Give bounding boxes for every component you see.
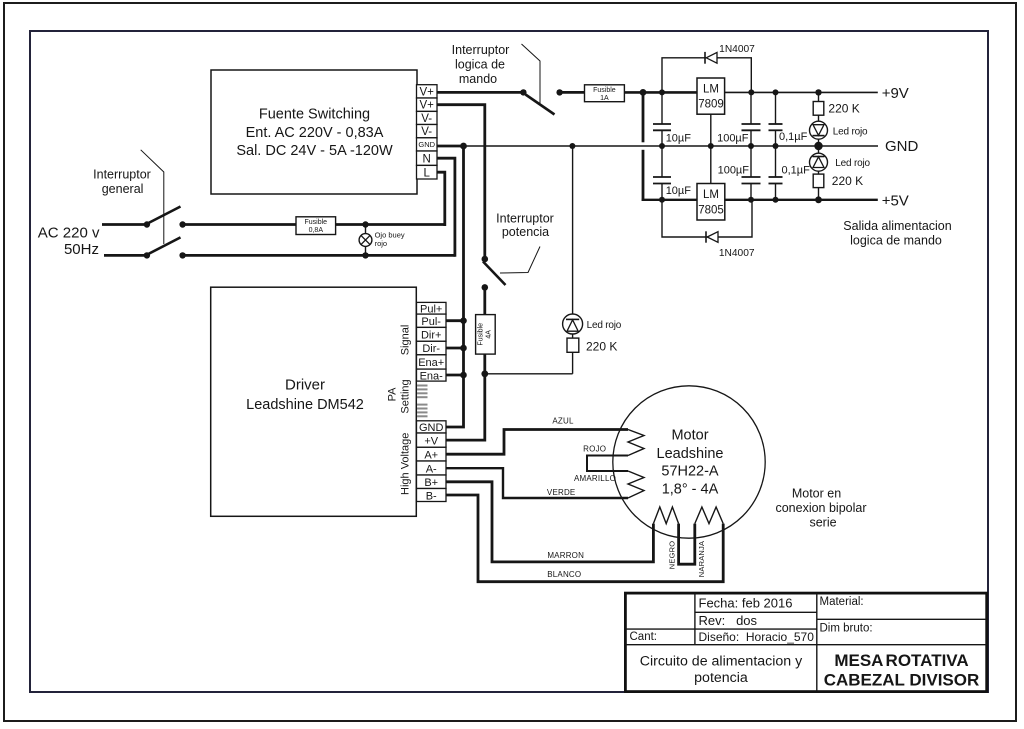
wire switch S1a to fuse F1: [183, 223, 296, 226]
svg-text:potencia: potencia: [502, 225, 549, 239]
resistor R3 220K: [567, 338, 579, 374]
svg-text:0,1µF: 0,1µF: [782, 165, 811, 177]
pin V+ 2 of PS1: [417, 98, 438, 112]
svg-text:Fuente Switching: Fuente Switching: [259, 106, 370, 122]
svg-text:GND: GND: [885, 138, 919, 155]
capacitor C3 100uF top: [742, 92, 761, 146]
node junction Dir-: [460, 345, 467, 352]
svg-text:V-: V-: [421, 113, 432, 125]
wire B- to BLANCO: [446, 495, 723, 582]
label PA Setting rotated: [387, 379, 412, 413]
title MESA ROTATIVA CABEZAL DIVISOR: [824, 651, 980, 690]
svg-text:Leadshine DM542: Leadshine DM542: [246, 397, 364, 413]
title block frame: [625, 593, 986, 692]
wire GND branch vertical from supply GND to driver GND: [446, 146, 464, 427]
svg-text:1,8° - 4A: 1,8° - 4A: [662, 481, 719, 497]
wire fuse F1 to L corner: [336, 223, 445, 226]
svg-text:Leadshine: Leadshine: [657, 446, 724, 462]
svg-text:Salida alimentacion: Salida alimentacion: [843, 219, 951, 233]
pin GND of PS1: [417, 138, 438, 151]
pin A+ of U2: [417, 447, 447, 461]
svg-text:LM: LM: [703, 189, 719, 201]
node junction D5 to GND rail: [569, 143, 575, 149]
LED D4 Led rojo 5V: [810, 146, 828, 174]
wire 24V from pin V+ 2 down to switch S3: [437, 105, 485, 259]
wire NEGRO NARANJA series link: [679, 524, 695, 565]
diode D1 1N4007 loop over U3: [662, 52, 751, 93]
svg-text:AMARILLO: AMARILLO: [574, 474, 616, 483]
svg-text:ROJO: ROJO: [583, 444, 606, 453]
svg-text:B+: B+: [424, 477, 438, 489]
GND rail: [437, 145, 878, 148]
svg-text:+V: +V: [424, 435, 438, 447]
pin Ena+ of U2: [417, 355, 447, 369]
svg-text:Setting: Setting: [400, 379, 412, 413]
resistor R2 220K on 5V: [813, 174, 824, 200]
svg-text:GND: GND: [418, 140, 435, 149]
wire switch S2 to fuse F2: [560, 91, 585, 94]
winding L1 phase A upper: [628, 430, 644, 456]
fuse F1 Fusible 0,8A: [296, 217, 336, 235]
leader line Interruptor logica de mando: [522, 44, 541, 104]
wire stub Pul- to GND branch: [446, 319, 464, 322]
pin Dir+ of U2: [417, 327, 447, 341]
diode D2 1N4007 loop under U4: [662, 200, 752, 243]
svg-text:Ena+: Ena+: [418, 357, 444, 369]
fuse F3 Fusible 4A: [476, 315, 496, 355]
label Ojo buey rojo: [375, 231, 405, 249]
svg-text:Circuito de alimentacion y: Circuito de alimentacion y: [640, 654, 803, 670]
svg-text:CABEZAL DIVISOR: CABEZAL DIVISOR: [824, 670, 980, 689]
svg-text:1N4007: 1N4007: [719, 44, 755, 55]
fuse F2 Fusible 1A: [585, 85, 625, 102]
capacitor C2 10uF: [653, 146, 671, 200]
label AC 220 v 50Hz: [38, 224, 100, 258]
svg-text:B-: B-: [426, 490, 437, 502]
svg-text:MESA ROTATIVA: MESA ROTATIVA: [834, 651, 968, 670]
svg-text:NEGRO: NEGRO: [668, 541, 677, 570]
motor M1 Leadshine 57H22-A: [613, 386, 765, 538]
node GND branch junction: [460, 143, 467, 150]
pin N of PS1: [417, 151, 438, 165]
wire B+ to MARRON: [446, 482, 653, 562]
svg-text:Cant:: Cant:: [630, 631, 658, 643]
svg-text:LM: LM: [703, 84, 719, 96]
pin V+ 1 of PS1: [417, 85, 438, 99]
pin V- 2 of PS1: [417, 125, 438, 139]
svg-text:rojo: rojo: [375, 239, 388, 248]
svg-text:Led rojo: Led rojo: [833, 126, 868, 137]
wire switch S3 to fuse F3: [483, 287, 486, 314]
svg-text:Diseño: Horacio_570: Diseño: Horacio_570: [699, 630, 815, 644]
svg-text:0,8A: 0,8A: [309, 227, 324, 234]
svg-text:BLANCO: BLANCO: [547, 570, 581, 579]
capacitor C5 0,1uF top: [769, 92, 783, 146]
wire AC line to switch S1a: [102, 223, 147, 226]
node junction 24V feed: [640, 89, 647, 96]
pin Pul+ of U2: [417, 302, 447, 315]
svg-text:Material:: Material:: [820, 596, 864, 608]
power supply PS1 Fuente Switching: [211, 70, 417, 194]
pin GND of U2: [417, 421, 447, 434]
pin V- 1 of PS1: [417, 111, 438, 125]
wire U3 ground pin: [710, 114, 712, 146]
svg-text:NARANJA: NARANJA: [697, 541, 706, 577]
pin B- of U2: [417, 489, 447, 503]
svg-text:7809: 7809: [698, 99, 724, 111]
wire AC neutral to switch S1b: [104, 254, 147, 257]
wire up to pin N: [437, 158, 455, 257]
capacitor C1 10uF: [653, 92, 671, 146]
node junction Pul-: [460, 317, 467, 324]
svg-text:Driver: Driver: [285, 376, 325, 393]
wire ROJO AMARILLO series link: [587, 456, 628, 472]
title Circuito de alimentacion y potencia: [640, 654, 803, 686]
wire A+ to AZUL: [446, 430, 628, 455]
winding L3 phase B left: [653, 507, 678, 524]
svg-text:MARRON: MARRON: [547, 551, 584, 560]
svg-text:10µF: 10µF: [666, 133, 692, 145]
svg-text:Ent. AC 220V - 0,83A: Ent. AC 220V - 0,83A: [246, 125, 384, 141]
svg-text:Pul-: Pul-: [421, 316, 441, 328]
leader line Interruptor general: [141, 150, 164, 244]
label Interruptor potencia: [496, 211, 554, 239]
svg-text:Fecha: feb 2016: Fecha: feb 2016: [699, 596, 793, 611]
node junction input rail 9V: [659, 89, 665, 95]
pin Pul- of U2: [417, 314, 447, 328]
svg-text:PA: PA: [387, 387, 399, 402]
regulator U3 LM7809: [697, 78, 725, 114]
leader line Interruptor potencia: [500, 247, 540, 274]
svg-text:+9V: +9V: [882, 85, 909, 102]
svg-text:AC 220 v: AC 220 v: [38, 224, 100, 241]
node junction input rail 5V: [659, 197, 665, 203]
svg-text:logica de mando: logica de mando: [850, 233, 942, 247]
node GND rail junctions: [659, 142, 823, 150]
svg-text:220 K: 220 K: [832, 174, 863, 188]
svg-text:Motor: Motor: [671, 428, 708, 444]
svg-text:conexion bipolar: conexion bipolar: [775, 501, 866, 515]
pin Ena- of U2: [417, 369, 447, 382]
svg-text:serie: serie: [809, 515, 836, 529]
svg-text:Sal. DC 24V - 5A -120W: Sal. DC 24V - 5A -120W: [236, 143, 393, 159]
svg-text:AZUL: AZUL: [552, 417, 574, 426]
wire VERDE to A-: [446, 468, 628, 498]
winding L2 phase A lower: [628, 471, 644, 498]
node +5V rail junctions: [748, 196, 822, 203]
pin B+ of U2: [417, 475, 447, 489]
wire switch S1b to N corner: [183, 254, 455, 257]
node junction 24V LED branch: [481, 370, 488, 377]
svg-text:7805: 7805: [698, 205, 724, 217]
wire stub Dir- to GND branch: [446, 347, 464, 350]
svg-text:mando: mando: [459, 72, 497, 86]
pin L of PS1: [417, 165, 438, 179]
node lamp bottom junction: [362, 252, 368, 258]
svg-text:potencia: potencia: [694, 670, 748, 686]
svg-text:Signal: Signal: [400, 325, 412, 356]
svg-text:L: L: [423, 167, 430, 179]
pin Dir- of U2: [417, 341, 447, 355]
svg-text:N: N: [423, 153, 431, 165]
svg-text:A-: A-: [426, 463, 437, 475]
pin A- of U2: [417, 461, 447, 475]
svg-text:Fusible: Fusible: [477, 323, 484, 346]
svg-text:0,1µF: 0,1µF: [779, 131, 808, 143]
svg-text:100µF: 100µF: [717, 132, 749, 144]
LED D3 Led rojo 9V: [810, 115, 828, 146]
+5V output rail: [725, 199, 878, 201]
svg-text:220 K: 220 K: [828, 102, 859, 116]
svg-text:+5V: +5V: [882, 192, 909, 209]
svg-text:V+: V+: [420, 100, 435, 112]
svg-text:V-: V-: [421, 126, 432, 138]
svg-text:4A: 4A: [486, 330, 493, 339]
wire 24V feed down to LM7805 input with gap at GND crossing: [642, 92, 645, 201]
svg-text:1A: 1A: [600, 95, 609, 102]
wire pin V+ 1 to switch S2: [437, 91, 523, 94]
regulator U4 LM7805: [697, 184, 725, 221]
node junction Ena-: [460, 372, 467, 379]
label Interruptor logica de mando: [452, 43, 510, 86]
svg-text:100µF: 100µF: [718, 164, 750, 176]
svg-text:Led rojo: Led rojo: [587, 320, 622, 331]
wire up to pin L: [437, 172, 445, 226]
svg-text:Led rojo: Led rojo: [835, 158, 870, 169]
capacitor C4 100uF bottom: [742, 146, 761, 200]
wire stub Ena- to GND branch: [446, 374, 464, 377]
svg-text:57H22-A: 57H22-A: [661, 464, 719, 480]
svg-text:Fusible: Fusible: [593, 87, 616, 94]
svg-text:Rev: dos: Rev: dos: [699, 613, 758, 628]
svg-text:Fusible: Fusible: [305, 219, 328, 226]
svg-text:220 K: 220 K: [586, 340, 617, 354]
pin +V of U2: [417, 433, 447, 447]
svg-text:10µF: 10µF: [666, 185, 692, 197]
svg-text:Interruptor: Interruptor: [496, 211, 554, 225]
capacitor C6 0,1uF bottom: [769, 146, 783, 200]
label Interruptor general: [93, 167, 151, 196]
switch S1 interruptor general pole a: [144, 207, 186, 228]
wire LM7805 input rail: [642, 199, 697, 201]
svg-text:general: general: [102, 182, 144, 196]
+9V output rail: [725, 91, 878, 93]
switch S2 interruptor logica de mando: [520, 89, 563, 114]
wire fuse F2 to LM7809 input: [624, 91, 697, 94]
svg-text:Dim bruto:: Dim bruto:: [820, 622, 873, 634]
svg-text:Dir-: Dir-: [422, 343, 440, 355]
wire U4 ground pin: [710, 146, 712, 184]
svg-text:50Hz: 50Hz: [64, 241, 99, 258]
svg-text:logica de: logica de: [455, 57, 505, 71]
LED D5 Led rojo 24V: [563, 146, 583, 338]
svg-text:Motor en: Motor en: [792, 486, 841, 500]
DIP switch PA setting block: [417, 385, 428, 418]
winding L4 phase B right: [695, 507, 723, 524]
label Salida alimentacion logica de mando: [843, 219, 951, 247]
svg-text:A+: A+: [424, 450, 438, 462]
wire fuse F3 down to pin +V: [446, 354, 485, 440]
driver U2 Leadshine DM542: [211, 287, 417, 516]
svg-text:Interruptor: Interruptor: [93, 167, 151, 181]
label Motor en conexion bipolar serie: [775, 486, 866, 529]
pilot lamp ojo buey rojo: [359, 225, 372, 256]
switch S1 interruptor general pole b: [144, 237, 186, 258]
svg-text:Dir+: Dir+: [421, 330, 441, 342]
svg-text:Interruptor: Interruptor: [452, 43, 510, 57]
node +9V rail junctions: [748, 89, 821, 95]
wire LED branch horizontal: [485, 373, 573, 375]
svg-text:High Voltage: High Voltage: [400, 433, 412, 495]
svg-text:Ena-: Ena-: [420, 370, 444, 382]
switch S3 interruptor potencia: [482, 256, 506, 291]
resistor R1 220K on 9V: [813, 92, 824, 115]
svg-text:V+: V+: [420, 86, 435, 98]
svg-text:VERDE: VERDE: [547, 488, 576, 497]
svg-text:1N4007: 1N4007: [719, 248, 755, 259]
node lamp top junction: [362, 221, 368, 227]
